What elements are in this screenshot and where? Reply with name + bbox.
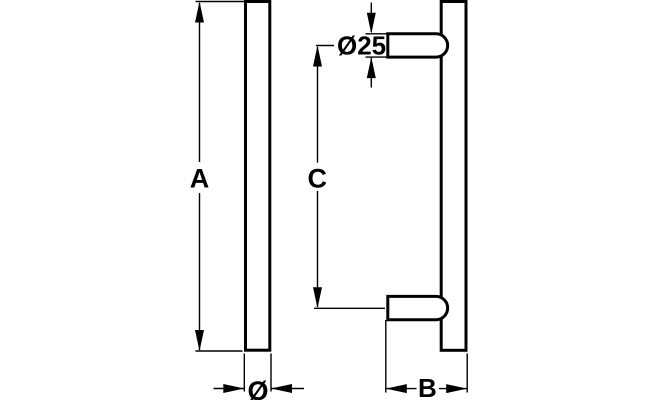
svg-text:A: A	[190, 164, 210, 194]
svg-text:B: B	[418, 373, 437, 400]
svg-text:Ø: Ø	[247, 376, 268, 400]
svg-text:Ø25: Ø25	[337, 30, 386, 60]
svg-text:C: C	[308, 164, 328, 194]
